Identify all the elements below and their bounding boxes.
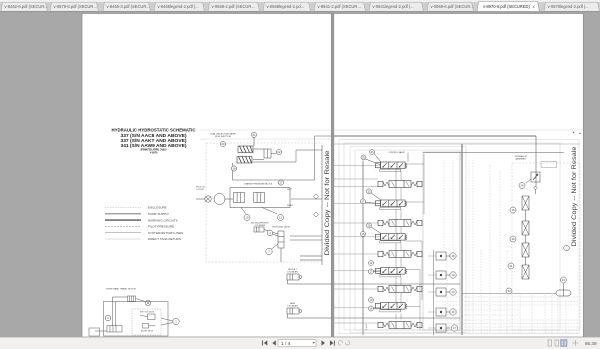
svg-text:v-8941-2.pdf (SECUR...: v-8941-2.pdf (SECUR... [318, 4, 361, 9]
svg-text:CONTROL VALVE: CONTROL VALVE [388, 151, 405, 154]
svg-text:CYLINDER: CYLINDER [287, 306, 298, 308]
svg-text:SHUTTLE VALVE: SHUTTLE VALVE [140, 311, 155, 314]
svg-text:v-8465legend-2.pdf (...: v-8465legend-2.pdf (... [158, 4, 199, 9]
svg-text:SYSTEM RETURN LINES: SYSTEM RETURN LINES [148, 231, 183, 235]
svg-text:CYLINDER: CYLINDER [287, 272, 298, 274]
svg-text:v-0969-6.pdf (SECUR...: v-0969-6.pdf (SECUR... [431, 4, 474, 9]
svg-text:RELIEF VALVE: RELIEF VALVE [141, 330, 154, 333]
svg-text:1 / 4: 1 / 4 [281, 341, 291, 347]
svg-text:v-0568legend-2.pd...: v-0568legend-2.pd... [267, 4, 305, 9]
svg-text:COOLER: COOLER [196, 189, 205, 191]
svg-text:v-8465-3.pdf (SECUR...: v-8465-3.pdf (SECUR... [107, 4, 150, 9]
svg-text:HYDROSTAT VALVE: HYDROSTAT VALVE [272, 226, 290, 229]
svg-text:341 (S/N AAW9 AND ABOVE): 341 (S/N AAW9 AND ABOVE) [121, 143, 188, 148]
svg-text:ENCLOSURE: ENCLOSURE [148, 206, 167, 210]
svg-text:CHARGE PRESSURE BLOCK: CHARGE PRESSURE BLOCK [244, 183, 273, 186]
svg-text:Divided Copy -- Not for Resale: Divided Copy -- Not for Resale [325, 150, 331, 256]
svg-text:Divided Copy -- Not for Resale: Divided Copy -- Not for Resale [572, 146, 578, 247]
svg-text:v-0879-6.pdf (SECUR...: v-0879-6.pdf (SECUR... [54, 4, 97, 9]
svg-text:RIGHT HAND TRAVEL MOTOR: RIGHT HAND TRAVEL MOTOR [106, 288, 136, 291]
svg-text:v-0841legend-2.pdf (...: v-0841legend-2.pdf (... [373, 4, 414, 9]
svg-text:DIRECT TANK RETURN: DIRECT TANK RETURN [148, 237, 181, 241]
svg-text:(FOR SHUTTLE): (FOR SHUTTLE) [215, 136, 231, 138]
svg-text:RIGHT: RIGHT [287, 205, 294, 207]
svg-text:LEFT: LEFT [287, 189, 293, 191]
svg-text:WORKING CIRCUITS: WORKING CIRCUITS [148, 218, 178, 222]
svg-text:v-8970-6.pdf (SECURED): v-8970-6.pdf (SECURED) [483, 4, 531, 9]
svg-text:CYLINDER: CYLINDER [255, 225, 266, 227]
svg-text:ASSEMBLY: ASSEMBLY [515, 158, 527, 161]
svg-text:PILOT PRESSURE: PILOT PRESSURE [148, 225, 174, 229]
svg-text:v-8462-6.pdf (SECUR...: v-8462-6.pdf (SECUR... [5, 4, 48, 9]
svg-text:V-0970: V-0970 [150, 152, 158, 155]
svg-text:v-0970legend-2.pdf (...: v-0970legend-2.pdf (... [548, 4, 589, 9]
svg-text:PUMP SUPPLY: PUMP SUPPLY [148, 212, 169, 216]
svg-text:v-0569-2.pdf (SECUR...: v-0569-2.pdf (SECUR... [212, 4, 255, 9]
svg-text:86.39: 86.39 [585, 341, 597, 346]
svg-text:2 of 4: 2 of 4 [366, 324, 368, 330]
svg-text:HYDRAULIC HYDROSTATIC SCHEMATI: HYDRAULIC HYDROSTATIC SCHEMATIC [112, 128, 197, 133]
